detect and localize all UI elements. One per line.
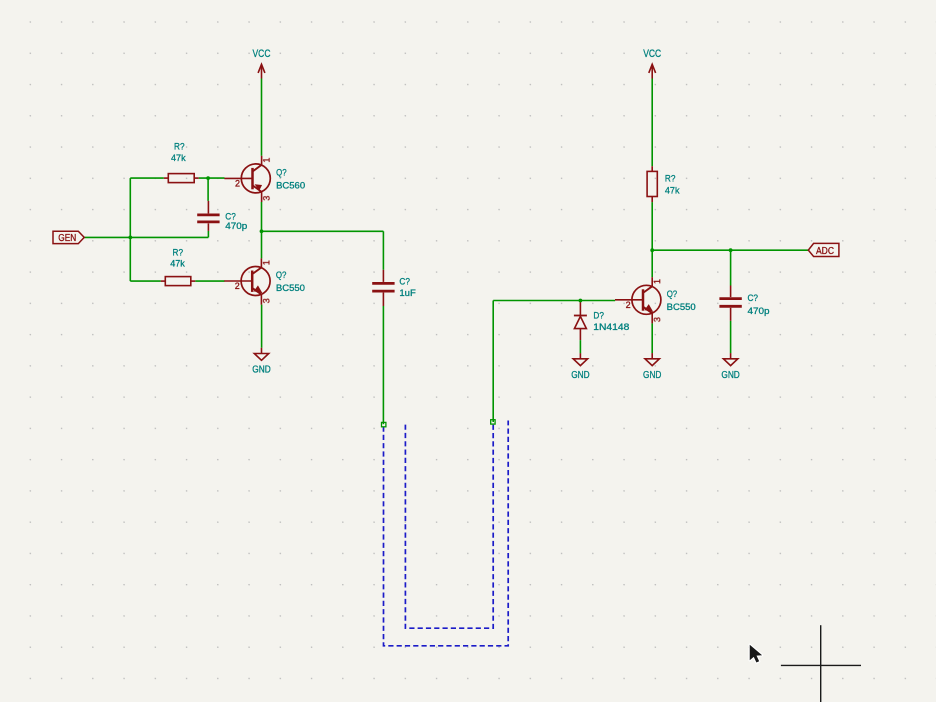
svg-text:47k: 47k [170, 258, 185, 269]
svg-text:2: 2 [235, 178, 240, 188]
svg-text:GND: GND [252, 364, 270, 375]
svg-text:BC550: BC550 [667, 301, 696, 312]
svg-text:2: 2 [235, 281, 240, 291]
svg-text:R?: R? [174, 141, 185, 152]
svg-text:VCC: VCC [643, 48, 661, 60]
svg-text:Q?: Q? [276, 166, 287, 177]
svg-text:3: 3 [261, 298, 271, 303]
svg-text:GND: GND [571, 370, 589, 381]
svg-text:GND: GND [721, 370, 739, 381]
svg-text:47k: 47k [665, 184, 680, 195]
svg-text:C?: C? [748, 292, 759, 303]
svg-text:2: 2 [626, 300, 631, 310]
svg-text:GND: GND [643, 370, 661, 381]
svg-text:ADC: ADC [816, 246, 834, 257]
svg-text:VCC: VCC [253, 48, 271, 60]
svg-text:1uF: 1uF [399, 287, 416, 298]
svg-text:3: 3 [652, 317, 662, 322]
svg-text:1N4148: 1N4148 [593, 321, 629, 332]
svg-text:3: 3 [262, 196, 272, 201]
svg-text:D?: D? [593, 310, 604, 321]
svg-text:R?: R? [173, 247, 184, 258]
svg-text:1: 1 [261, 260, 271, 265]
svg-text:1: 1 [262, 158, 272, 163]
svg-text:GEN: GEN [58, 233, 76, 244]
svg-text:470p: 470p [748, 305, 770, 316]
svg-text:Q?: Q? [667, 288, 678, 299]
svg-text:470p: 470p [225, 220, 247, 231]
svg-text:C?: C? [399, 275, 410, 286]
svg-text:BC550: BC550 [276, 282, 305, 293]
svg-text:R?: R? [665, 172, 676, 183]
svg-text:Q?: Q? [276, 269, 287, 280]
svg-text:47k: 47k [171, 152, 186, 163]
svg-text:BC560: BC560 [276, 179, 305, 190]
svg-text:1: 1 [652, 279, 662, 284]
